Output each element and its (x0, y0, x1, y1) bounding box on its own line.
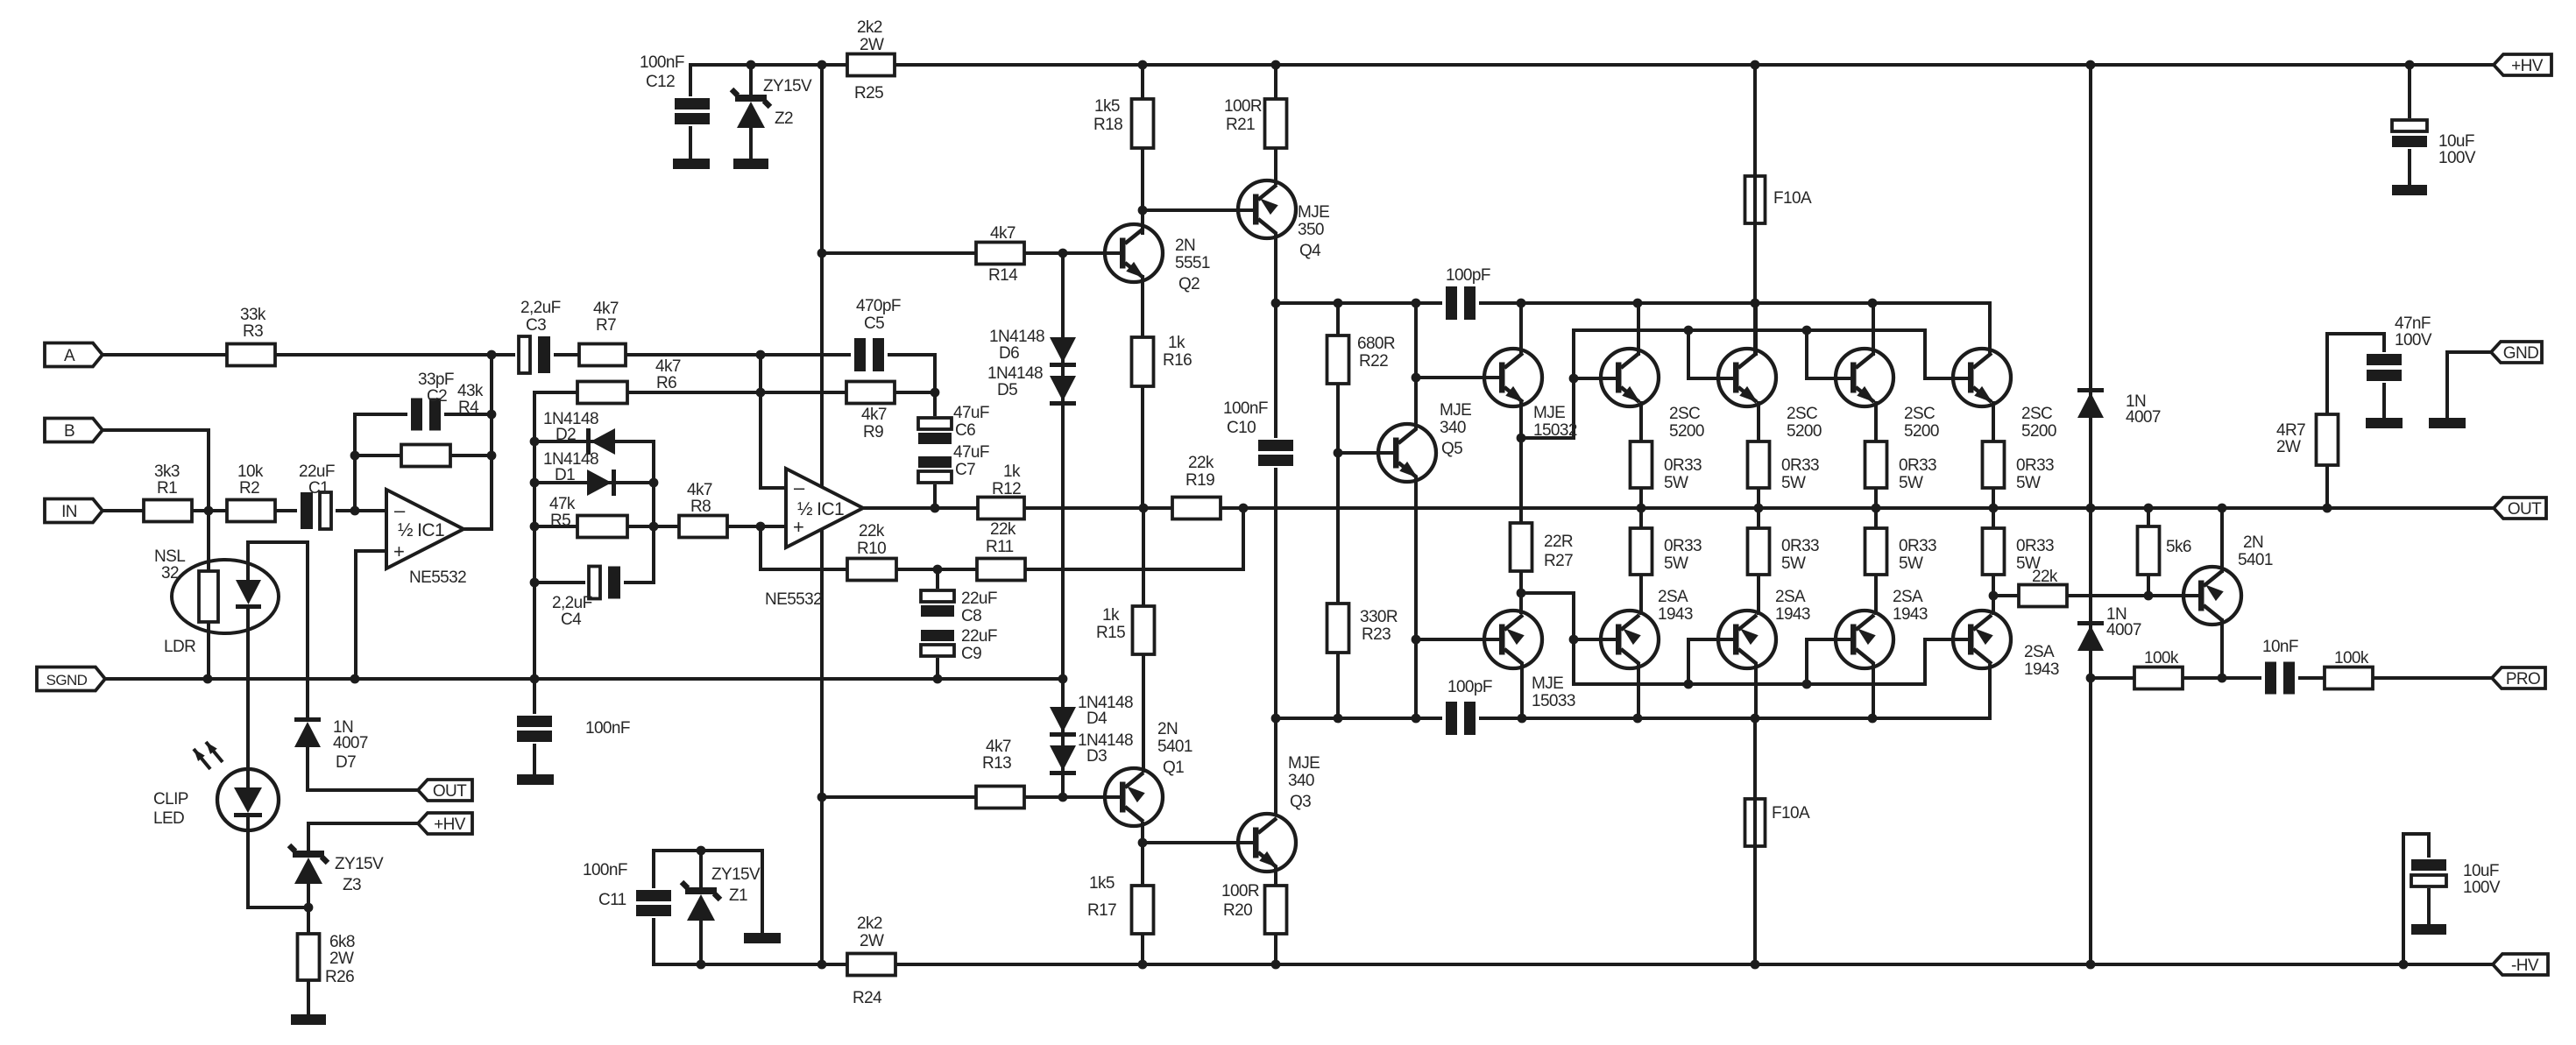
svg-text:100nF: 100nF (1223, 399, 1268, 418)
svg-text:2W: 2W (329, 950, 354, 968)
svg-text:Q4: Q4 (1299, 242, 1321, 260)
svg-text:NSL: NSL (154, 547, 185, 566)
svg-text:47uF: 47uF (953, 404, 989, 422)
svg-text:15033: 15033 (1532, 692, 1575, 710)
svg-text:R12: R12 (992, 480, 1021, 498)
svg-text:100nF: 100nF (640, 53, 684, 72)
svg-text:5W: 5W (1664, 474, 1688, 492)
svg-text:GND: GND (2503, 344, 2538, 363)
svg-text:10uF: 10uF (2463, 862, 2499, 880)
svg-text:15032: 15032 (1533, 421, 1577, 440)
svg-text:D3: D3 (1086, 747, 1107, 766)
svg-text:4k7: 4k7 (655, 357, 681, 376)
svg-text:1k: 1k (1168, 334, 1185, 352)
svg-text:D5: D5 (997, 381, 1017, 399)
svg-text:Z3: Z3 (343, 876, 361, 894)
svg-text:0R33: 0R33 (1664, 537, 1702, 555)
svg-text:+HV: +HV (434, 816, 466, 834)
svg-text:2SA: 2SA (1775, 588, 1806, 606)
svg-text:2N: 2N (1175, 237, 1195, 255)
svg-text:NE5532: NE5532 (765, 590, 822, 609)
svg-text:MJE: MJE (1298, 203, 1329, 222)
svg-text:4R7: 4R7 (2276, 421, 2305, 440)
svg-text:2,2uF: 2,2uF (520, 299, 561, 317)
svg-text:OUT: OUT (433, 782, 467, 801)
svg-text:5401: 5401 (2238, 551, 2273, 569)
svg-text:B: B (64, 422, 74, 441)
svg-text:5W: 5W (2016, 474, 2041, 492)
svg-text:R17: R17 (1087, 901, 1116, 920)
svg-text:1943: 1943 (2024, 660, 2059, 679)
svg-text:R4: R4 (458, 399, 479, 417)
svg-text:5W: 5W (2016, 554, 2041, 573)
svg-text:2SC: 2SC (1904, 405, 1935, 423)
svg-text:C2: C2 (427, 387, 447, 406)
svg-text:0R33: 0R33 (2016, 456, 2054, 475)
svg-text:MJE: MJE (1440, 401, 1471, 420)
svg-text:LDR: LDR (164, 638, 195, 656)
svg-text:LED: LED (153, 809, 184, 828)
svg-text:43k: 43k (457, 382, 484, 400)
svg-text:3k3: 3k3 (154, 462, 180, 481)
svg-text:MJE: MJE (1533, 404, 1565, 422)
svg-text:5200: 5200 (1669, 422, 1704, 441)
svg-text:R5: R5 (550, 512, 570, 530)
svg-text:100R: 100R (1221, 882, 1259, 900)
svg-text:350: 350 (1298, 221, 1324, 239)
svg-text:D1: D1 (555, 466, 575, 484)
svg-text:C11: C11 (598, 891, 626, 909)
svg-text:4007: 4007 (2126, 408, 2161, 427)
svg-text:1k5: 1k5 (1094, 97, 1120, 116)
svg-text:22k: 22k (990, 520, 1016, 539)
svg-text:22uF: 22uF (299, 462, 335, 481)
svg-text:47k: 47k (549, 495, 576, 513)
svg-text:R22: R22 (1359, 352, 1388, 371)
svg-text:C7: C7 (955, 461, 975, 479)
svg-text:R2: R2 (239, 479, 259, 498)
svg-text:R11: R11 (986, 538, 1014, 556)
svg-text:Q3: Q3 (1290, 793, 1311, 811)
svg-text:PRO: PRO (2506, 670, 2540, 688)
svg-text:5W: 5W (1781, 474, 1806, 492)
svg-text:1k: 1k (1102, 606, 1120, 625)
svg-text:5W: 5W (1899, 554, 1923, 573)
svg-text:C9: C9 (961, 645, 981, 663)
svg-text:100V: 100V (2395, 331, 2432, 350)
svg-text:F10A: F10A (1772, 804, 1810, 823)
svg-text:R19: R19 (1185, 471, 1214, 490)
svg-text:4007: 4007 (333, 734, 368, 752)
svg-text:1k: 1k (1003, 462, 1021, 481)
svg-text:R13: R13 (982, 754, 1011, 773)
svg-text:R10: R10 (857, 540, 886, 558)
svg-text:C8: C8 (961, 607, 981, 625)
svg-text:R16: R16 (1163, 351, 1192, 370)
svg-text:100R: 100R (1224, 97, 1262, 116)
svg-text:R7: R7 (596, 316, 616, 335)
svg-text:+HV: +HV (2511, 57, 2544, 75)
svg-text:470pF: 470pF (856, 297, 901, 315)
svg-text:680R: 680R (1357, 335, 1395, 353)
svg-text:4k7: 4k7 (990, 224, 1016, 243)
svg-text:OUT: OUT (2508, 500, 2542, 519)
svg-text:340: 340 (1440, 419, 1466, 437)
svg-text:C4: C4 (561, 611, 582, 629)
svg-text:ZY15V: ZY15V (763, 77, 812, 95)
svg-text:MJE: MJE (1532, 674, 1563, 693)
svg-text:2N: 2N (2243, 533, 2263, 552)
svg-text:1943: 1943 (1658, 605, 1693, 624)
svg-text:D2: D2 (556, 426, 576, 444)
svg-text:33pF: 33pF (418, 371, 454, 389)
svg-text:ZY15V: ZY15V (711, 865, 761, 884)
svg-text:1943: 1943 (1893, 605, 1928, 624)
svg-text:+: + (393, 540, 404, 562)
svg-text:2W: 2W (2276, 438, 2301, 456)
svg-text:C12: C12 (646, 73, 675, 91)
svg-text:R24: R24 (853, 989, 882, 1007)
svg-text:100pF: 100pF (1447, 678, 1492, 696)
svg-text:½ IC1: ½ IC1 (398, 520, 444, 540)
svg-text:10uF: 10uF (2438, 132, 2474, 151)
svg-text:4k7: 4k7 (861, 406, 887, 424)
svg-text:5401: 5401 (1157, 738, 1192, 756)
svg-text:IN: IN (61, 503, 77, 521)
svg-text:22k: 22k (859, 522, 885, 540)
svg-text:2,2uF: 2,2uF (552, 594, 592, 612)
svg-text:4k7: 4k7 (593, 300, 619, 318)
svg-text:22k: 22k (1188, 454, 1214, 472)
svg-text:2N: 2N (1157, 720, 1178, 738)
svg-text:10k: 10k (237, 462, 264, 481)
svg-text:Q1: Q1 (1163, 759, 1184, 777)
svg-text:R18: R18 (1093, 116, 1122, 134)
svg-text:1N4148: 1N4148 (987, 364, 1043, 383)
svg-text:5200: 5200 (1787, 422, 1822, 441)
svg-text:ZY15V: ZY15V (335, 855, 384, 873)
svg-text:C1: C1 (308, 479, 329, 498)
svg-text:Z1: Z1 (729, 886, 747, 905)
svg-text:MJE: MJE (1288, 754, 1320, 773)
svg-text:R8: R8 (690, 498, 711, 516)
svg-text:R15: R15 (1096, 624, 1125, 642)
svg-text:2SA: 2SA (2024, 643, 2055, 661)
svg-text:Q2: Q2 (1178, 275, 1200, 293)
svg-text:–: – (794, 477, 805, 498)
svg-text:Z2: Z2 (775, 109, 793, 128)
svg-text:5200: 5200 (1904, 422, 1939, 441)
svg-text:2W: 2W (860, 36, 884, 54)
svg-text:47nF: 47nF (2395, 314, 2431, 333)
svg-text:0R33: 0R33 (1781, 456, 1819, 475)
svg-text:32: 32 (161, 564, 179, 583)
svg-text:R26: R26 (325, 968, 354, 986)
svg-text:0R33: 0R33 (1899, 456, 1936, 475)
svg-text:1943: 1943 (1775, 605, 1810, 624)
svg-text:33k: 33k (240, 306, 266, 324)
svg-text:2k2: 2k2 (857, 914, 882, 933)
svg-text:2SC: 2SC (1669, 405, 1700, 423)
svg-text:R20: R20 (1223, 901, 1252, 920)
svg-text:0R33: 0R33 (1664, 456, 1702, 475)
svg-text:100nF: 100nF (583, 861, 627, 879)
svg-text:R1: R1 (157, 479, 177, 498)
svg-text:2k2: 2k2 (857, 18, 882, 37)
svg-text:A: A (64, 347, 75, 365)
svg-text:R21: R21 (1226, 116, 1255, 134)
svg-text:1k5: 1k5 (1089, 874, 1115, 893)
svg-text:0R33: 0R33 (1781, 537, 1819, 555)
svg-text:4k7: 4k7 (986, 738, 1011, 756)
svg-text:C10: C10 (1227, 419, 1256, 437)
svg-text:6k8: 6k8 (329, 933, 355, 951)
svg-text:-HV: -HV (2511, 957, 2539, 975)
svg-text:D6: D6 (999, 344, 1019, 363)
svg-text:F10A: F10A (1773, 189, 1812, 208)
svg-text:R14: R14 (988, 266, 1018, 285)
svg-text:5W: 5W (1781, 554, 1806, 573)
svg-text:D7: D7 (336, 753, 356, 772)
svg-text:0R33: 0R33 (2016, 537, 2054, 555)
svg-text:2SC: 2SC (2021, 405, 2052, 423)
svg-text:10nF: 10nF (2262, 638, 2298, 656)
svg-text:SGND: SGND (46, 672, 88, 688)
svg-text:100nF: 100nF (585, 719, 630, 738)
svg-text:100V: 100V (2463, 879, 2501, 897)
svg-text:2SC: 2SC (1787, 405, 1817, 423)
svg-text:22uF: 22uF (961, 627, 997, 646)
svg-text:2SA: 2SA (1658, 588, 1688, 606)
svg-text:100k: 100k (2334, 649, 2369, 667)
svg-text:22uF: 22uF (961, 590, 997, 608)
svg-text:R3: R3 (243, 322, 263, 341)
svg-text:4k7: 4k7 (687, 481, 712, 499)
svg-text:2SA: 2SA (1893, 588, 1923, 606)
svg-text:100k: 100k (2144, 649, 2179, 667)
svg-text:CLIP: CLIP (153, 790, 188, 808)
svg-text:D4: D4 (1086, 710, 1108, 728)
svg-text:R27: R27 (1544, 552, 1573, 570)
svg-text:C5: C5 (864, 314, 884, 333)
svg-text:Q5: Q5 (1441, 440, 1462, 458)
svg-text:4007: 4007 (2106, 621, 2141, 639)
svg-text:1N4148: 1N4148 (989, 328, 1044, 346)
svg-text:5k6: 5k6 (2166, 538, 2191, 556)
svg-text:½ IC1: ½ IC1 (797, 499, 844, 519)
svg-text:5551: 5551 (1175, 254, 1210, 272)
svg-text:100pF: 100pF (1446, 266, 1490, 285)
svg-text:5W: 5W (1899, 474, 1923, 492)
svg-text:R6: R6 (656, 374, 676, 392)
svg-text:340: 340 (1288, 772, 1314, 790)
svg-text:5W: 5W (1664, 554, 1688, 573)
svg-text:–: – (394, 499, 406, 521)
svg-text:22R: 22R (1544, 533, 1573, 551)
svg-text:R9: R9 (863, 423, 883, 441)
svg-text:C6: C6 (955, 421, 975, 440)
svg-text:C3: C3 (526, 316, 546, 335)
svg-text:5200: 5200 (2021, 422, 2056, 441)
svg-text:R25: R25 (854, 84, 883, 102)
svg-text:330R: 330R (1360, 608, 1398, 626)
svg-text:NE5532: NE5532 (409, 568, 466, 587)
svg-text:47uF: 47uF (953, 443, 989, 462)
svg-text:2W: 2W (860, 932, 884, 950)
svg-text:100V: 100V (2438, 149, 2476, 167)
svg-text:R23: R23 (1362, 625, 1391, 644)
svg-text:0R33: 0R33 (1899, 537, 1936, 555)
